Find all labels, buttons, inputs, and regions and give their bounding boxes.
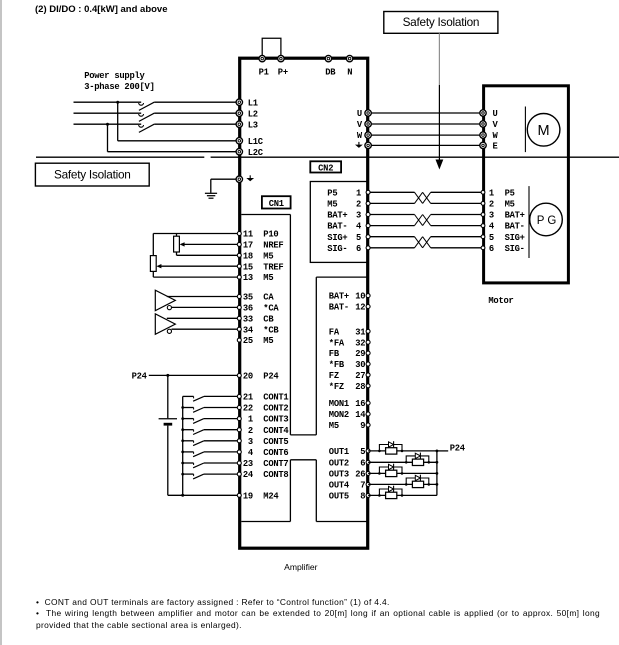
svg-text:CN1: CN1 bbox=[269, 199, 284, 209]
svg-text:11: 11 bbox=[243, 230, 253, 240]
relay load K3 with diode bbox=[378, 464, 403, 477]
svg-text:7: 7 bbox=[360, 481, 365, 491]
svg-text:16: 16 bbox=[355, 399, 365, 409]
svg-text:12: 12 bbox=[355, 303, 365, 313]
terminal U (motor) bbox=[480, 110, 486, 116]
terminal W (motor) bbox=[480, 132, 486, 138]
pin 22 CONT2 bbox=[237, 404, 288, 414]
svg-text:3-phase 200[V]: 3-phase 200[V] bbox=[84, 82, 154, 92]
pin 30 *FB bbox=[329, 360, 370, 370]
svg-text:P1: P1 bbox=[259, 68, 269, 78]
pin 5 SIG+ (encoder) bbox=[481, 233, 525, 243]
relay load K5 with diode bbox=[378, 486, 403, 499]
svg-text:E: E bbox=[493, 142, 498, 152]
relay load K1 with diode bbox=[378, 441, 403, 454]
pin 3 CONT5 bbox=[237, 437, 288, 447]
wire L1C feeder bbox=[118, 102, 237, 141]
switch CONT7 bbox=[181, 462, 237, 468]
pin 2 M5 (encoder) bbox=[481, 200, 515, 210]
pin 11 P10 bbox=[237, 230, 278, 240]
wire OUT4 bbox=[368, 483, 437, 485]
svg-text:(2) DI/DO : 0.4[kW] and above: (2) DI/DO : 0.4[kW] and above bbox=[35, 4, 168, 15]
pin 6 OUT2 bbox=[329, 458, 370, 468]
svg-text:25: 25 bbox=[243, 336, 253, 346]
svg-text:34: 34 bbox=[243, 325, 254, 335]
svg-text:P24: P24 bbox=[132, 371, 148, 381]
svg-text:P G: P G bbox=[537, 215, 557, 227]
wire battery negative to M24 bbox=[168, 426, 237, 496]
svg-text:M5: M5 bbox=[327, 200, 337, 210]
svg-text:8: 8 bbox=[360, 492, 365, 502]
safety isolation boundary line bbox=[36, 156, 619, 158]
junction P24/battery bbox=[166, 374, 169, 377]
terminal U (amplifier) bbox=[365, 110, 371, 116]
svg-text:CONT1: CONT1 bbox=[263, 393, 288, 403]
potentiometer R1 (NREF) bbox=[174, 236, 180, 252]
wire L2 bbox=[74, 112, 238, 114]
pin 10 BAT+ bbox=[329, 292, 370, 302]
svg-text:CONT4: CONT4 bbox=[263, 426, 289, 436]
svg-text:28: 28 bbox=[355, 382, 365, 392]
svg-text:SIG+: SIG+ bbox=[327, 233, 347, 243]
switch CONT6 bbox=[181, 451, 237, 457]
pin 4 CONT6 bbox=[237, 448, 288, 458]
switch S1 (L1 phase) bbox=[139, 102, 155, 110]
svg-text:TREF: TREF bbox=[263, 262, 283, 272]
svg-text:CN2: CN2 bbox=[318, 163, 333, 173]
title text bbox=[35, 4, 168, 15]
relay load K4 with diode bbox=[405, 475, 430, 488]
svg-text:18: 18 bbox=[243, 251, 253, 261]
svg-text:BAT-: BAT- bbox=[329, 303, 349, 313]
svg-text:M5: M5 bbox=[263, 273, 273, 283]
svg-text:FZ: FZ bbox=[329, 371, 339, 381]
pin 2 M5 (CN2) bbox=[327, 200, 370, 210]
pin 1 P5 (CN2) bbox=[327, 188, 370, 198]
wire NREF (pin 17) with wiper arrow bbox=[180, 242, 237, 246]
svg-text:3: 3 bbox=[356, 211, 361, 221]
junction OUT bus row 2 bbox=[436, 461, 439, 464]
svg-text:Safety Isolation: Safety Isolation bbox=[403, 15, 480, 29]
terminal P1 bbox=[259, 55, 265, 61]
svg-text:U: U bbox=[493, 109, 498, 119]
terminal labels P1 P+ DB N bbox=[259, 68, 353, 78]
pin 29 FB bbox=[329, 349, 370, 359]
safety isolation label box (left) bbox=[35, 163, 149, 186]
safety isolation arrow bbox=[436, 33, 444, 169]
pin 14 MON2 bbox=[329, 410, 370, 420]
svg-text:1: 1 bbox=[248, 415, 253, 425]
terminal L1 bbox=[236, 99, 242, 105]
pin 35 CA bbox=[237, 293, 274, 303]
jumper P1 to P+ bbox=[262, 38, 281, 59]
pin 4 BAT- (CN2) bbox=[327, 222, 370, 232]
svg-text:FB: FB bbox=[329, 349, 340, 359]
svg-text:*FB: *FB bbox=[329, 360, 345, 370]
switch S3 (L3 phase) bbox=[139, 124, 155, 132]
switch CONT5 bbox=[181, 439, 237, 445]
svg-text:DB: DB bbox=[325, 68, 336, 78]
svg-text:Amplifier: Amplifier bbox=[284, 562, 318, 572]
svg-text:5: 5 bbox=[360, 447, 365, 457]
wire OUT3 bbox=[368, 472, 437, 474]
svg-text:23: 23 bbox=[243, 459, 253, 469]
svg-text:BAT-: BAT- bbox=[505, 222, 525, 232]
wire U (amplifier to motor) bbox=[368, 112, 483, 114]
svg-text:MON1: MON1 bbox=[329, 399, 349, 409]
junction on L1 bbox=[116, 101, 119, 104]
svg-text:BAT+: BAT+ bbox=[329, 292, 349, 302]
svg-text:SIG-: SIG- bbox=[505, 244, 525, 254]
pin 17 NREF bbox=[237, 241, 283, 251]
junction bus/M24 bbox=[181, 494, 184, 497]
svg-text:CB: CB bbox=[263, 314, 274, 324]
svg-text:OUT3: OUT3 bbox=[329, 470, 349, 480]
wire M5 (pin 18) bbox=[177, 252, 238, 255]
svg-text:N: N bbox=[347, 68, 352, 78]
svg-text:P24: P24 bbox=[263, 372, 279, 382]
wire CA (pin 35) bbox=[167, 296, 237, 298]
node P24 (external supply) bbox=[132, 371, 148, 381]
wire to P24 (right) bbox=[437, 450, 448, 452]
svg-text:OUT4: OUT4 bbox=[329, 481, 350, 491]
encoder PG symbol bbox=[530, 203, 563, 236]
svg-text:CONT3: CONT3 bbox=[263, 415, 288, 425]
pin 23 CONT7 bbox=[237, 459, 288, 469]
pin 12 BAT- bbox=[329, 303, 370, 313]
svg-text:M5: M5 bbox=[263, 336, 273, 346]
svg-text:17: 17 bbox=[243, 241, 253, 251]
svg-text:SIG+: SIG+ bbox=[505, 233, 525, 243]
terminal labels U V W (amplifier) bbox=[357, 109, 363, 141]
wire V (amplifier to motor) bbox=[368, 123, 483, 125]
svg-text:3: 3 bbox=[489, 211, 494, 221]
wire P10 (pin 11) bbox=[153, 234, 237, 237]
svg-text:M5: M5 bbox=[505, 200, 515, 210]
pin 8 OUT5 bbox=[329, 492, 370, 502]
pin 21 CONT1 bbox=[237, 393, 288, 403]
junction OUT bus row 4 bbox=[436, 483, 439, 486]
svg-text:OUT2: OUT2 bbox=[329, 458, 349, 468]
pin 33 CB bbox=[237, 314, 274, 324]
battery BT1 bbox=[159, 419, 177, 424]
svg-text:36: 36 bbox=[243, 304, 253, 314]
svg-text:CONT5: CONT5 bbox=[263, 437, 288, 447]
svg-text:BAT+: BAT+ bbox=[505, 211, 525, 221]
svg-text:20: 20 bbox=[243, 372, 253, 382]
svg-text:3: 3 bbox=[248, 437, 253, 447]
page edge bbox=[0, 0, 2, 645]
svg-text:22: 22 bbox=[243, 404, 253, 414]
pin 4 BAT- (encoder) bbox=[481, 222, 525, 232]
pin 13 M5 bbox=[237, 273, 273, 283]
pin 5 OUT1 bbox=[329, 447, 370, 457]
connector label CN2 bbox=[310, 161, 341, 173]
safety isolation label box (top right) bbox=[384, 12, 498, 34]
wire L1 bbox=[74, 101, 238, 103]
pin 6 SIG- (encoder) bbox=[481, 244, 525, 254]
node P24 (right) bbox=[450, 444, 466, 454]
pin 27 FZ bbox=[329, 371, 370, 381]
switch S2 (L2 phase) bbox=[139, 113, 155, 121]
svg-text:L1: L1 bbox=[248, 98, 258, 108]
svg-text:6: 6 bbox=[356, 244, 361, 254]
svg-text:L1C: L1C bbox=[248, 137, 264, 147]
pin 32 *FA bbox=[329, 338, 370, 348]
switch CONT3 bbox=[181, 417, 237, 423]
svg-text:32: 32 bbox=[355, 338, 365, 348]
svg-text:CA: CA bbox=[263, 293, 274, 303]
CONT common bus bbox=[182, 396, 184, 495]
svg-text:P5: P5 bbox=[327, 188, 337, 198]
svg-text:6: 6 bbox=[360, 458, 365, 468]
terminal E (motor) bbox=[480, 142, 486, 148]
svg-text:2: 2 bbox=[356, 200, 361, 210]
svg-text:10: 10 bbox=[355, 292, 365, 302]
svg-text:U: U bbox=[357, 109, 362, 119]
junction on L3 bbox=[106, 123, 109, 126]
wire E (amplifier to motor) bbox=[368, 144, 483, 146]
svg-text:OUT1: OUT1 bbox=[329, 447, 349, 457]
svg-text:33: 33 bbox=[243, 314, 253, 324]
svg-text:L2C: L2C bbox=[248, 148, 264, 158]
terminal labels L1 L2 L3 L1C L2C bbox=[248, 98, 264, 158]
svg-text:24: 24 bbox=[243, 470, 254, 480]
terminal L2C bbox=[236, 149, 242, 155]
wire L3 bbox=[74, 123, 238, 125]
pin 9 M5 bbox=[329, 421, 370, 431]
svg-text:BAT-: BAT- bbox=[327, 222, 347, 232]
wire *CB (pin 34) bbox=[172, 328, 238, 330]
motor outline bbox=[484, 86, 569, 283]
wire CB (pin 33) bbox=[167, 317, 237, 319]
encoder separator bbox=[528, 186, 530, 258]
twisted pair wires (pins 1/2) bbox=[368, 192, 483, 203]
wire P24 to pin 20 bbox=[149, 374, 237, 376]
svg-text:P10: P10 bbox=[263, 230, 278, 240]
motor caption bbox=[488, 296, 513, 306]
wire battery positive bbox=[167, 375, 169, 418]
wire OUT5 bbox=[368, 494, 437, 496]
connector label CN1 bbox=[262, 196, 291, 209]
line driver U3 (CB) bbox=[155, 314, 175, 334]
terminal W (amplifier) bbox=[365, 132, 371, 138]
svg-text:Power supply: Power supply bbox=[84, 71, 145, 81]
wire M5 (pin 13) bbox=[153, 271, 237, 277]
svg-text:CONT7: CONT7 bbox=[263, 459, 288, 469]
svg-text:6: 6 bbox=[489, 244, 494, 254]
pin 36 *CA bbox=[237, 304, 279, 314]
svg-text:M: M bbox=[538, 123, 550, 139]
svg-text:P24: P24 bbox=[450, 444, 466, 454]
pin 19 M24 bbox=[237, 491, 279, 501]
svg-text:OUT5: OUT5 bbox=[329, 492, 349, 502]
pin 1 CONT3 bbox=[237, 415, 288, 425]
svg-text:CONT8: CONT8 bbox=[263, 470, 288, 480]
notes bbox=[36, 597, 600, 632]
terminal N bbox=[346, 55, 352, 61]
svg-text:21: 21 bbox=[243, 393, 253, 403]
svg-text:FA: FA bbox=[329, 327, 340, 337]
ground symbol bbox=[205, 193, 217, 198]
svg-text:30: 30 bbox=[355, 360, 365, 370]
relay load K2 with diode bbox=[405, 453, 430, 466]
svg-text:26: 26 bbox=[355, 470, 365, 480]
svg-text:9: 9 bbox=[360, 421, 365, 431]
svg-text:29: 29 bbox=[355, 349, 365, 359]
pin 6 SIG- (CN2) bbox=[327, 244, 370, 254]
svg-text:2: 2 bbox=[248, 426, 253, 436]
svg-text:2: 2 bbox=[489, 200, 494, 210]
svg-text:M24: M24 bbox=[263, 491, 279, 501]
pin 31 FA bbox=[329, 327, 370, 337]
svg-text:19: 19 bbox=[243, 491, 253, 501]
junction OUT bus row 1 bbox=[436, 450, 439, 453]
svg-text:NREF: NREF bbox=[263, 241, 283, 251]
amplifier U1 outline bbox=[240, 58, 368, 548]
line driver U2 (CA) bbox=[155, 290, 175, 310]
chassis ground glyph (left) bbox=[246, 175, 254, 181]
pin 3 BAT+ (CN2) bbox=[327, 211, 370, 221]
pin 34 *CB bbox=[237, 325, 279, 335]
junction OUT bus row 3 bbox=[436, 472, 439, 475]
switch CONT8 bbox=[181, 473, 237, 479]
pin 5 SIG+ (CN2) bbox=[327, 233, 370, 243]
wire TREF (pin 15) with wiper arrow bbox=[156, 264, 237, 268]
svg-text:M5: M5 bbox=[329, 421, 339, 431]
svg-text:P5: P5 bbox=[505, 188, 515, 198]
svg-text:L3: L3 bbox=[248, 120, 258, 130]
ground wire bbox=[211, 179, 237, 193]
svg-text:1: 1 bbox=[489, 188, 494, 198]
svg-text:13: 13 bbox=[243, 273, 253, 283]
svg-text:5: 5 bbox=[489, 233, 494, 243]
terminal DB bbox=[325, 55, 331, 61]
wire OUT1 bbox=[368, 450, 437, 452]
pin 16 MON1 bbox=[329, 399, 370, 409]
pin 15 TREF bbox=[237, 262, 283, 272]
connector CN1 outline bbox=[241, 215, 366, 522]
terminal ground (amplifier) bbox=[236, 176, 242, 182]
potentiometer R2 (TREF) bbox=[150, 256, 156, 272]
svg-text:Safety Isolation: Safety Isolation bbox=[54, 168, 131, 182]
svg-text:Motor: Motor bbox=[488, 296, 513, 306]
terminal L2 bbox=[236, 110, 242, 116]
pin 26 OUT3 bbox=[329, 470, 370, 480]
svg-text:1: 1 bbox=[356, 188, 361, 198]
svg-text:P+: P+ bbox=[278, 68, 288, 78]
chassis ground glyph (E terminal) bbox=[355, 142, 363, 148]
wire L2C feeder bbox=[108, 124, 238, 152]
terminal labels U V W E (motor) bbox=[493, 109, 499, 151]
svg-text:L2: L2 bbox=[248, 109, 258, 119]
svg-text:31: 31 bbox=[355, 327, 365, 337]
terminal V (amplifier) bbox=[365, 121, 371, 127]
svg-text:5: 5 bbox=[356, 233, 361, 243]
motor M symbol bbox=[527, 114, 560, 147]
svg-text:27: 27 bbox=[355, 371, 365, 381]
switch CONT4 bbox=[181, 428, 237, 434]
svg-text:*CA: *CA bbox=[263, 304, 279, 314]
pin 28 *FZ bbox=[329, 382, 370, 392]
svg-text:35: 35 bbox=[243, 293, 253, 303]
power supply label bbox=[84, 71, 154, 92]
wire to potentiometer R2 bbox=[152, 234, 154, 256]
connector CN2 encoder section outline bbox=[310, 182, 367, 263]
wire *CA (pin 36) bbox=[172, 306, 238, 308]
svg-text:CONT2: CONT2 bbox=[263, 404, 288, 414]
amplifier caption bbox=[284, 562, 318, 572]
svg-text:MON2: MON2 bbox=[329, 410, 349, 420]
svg-text:14: 14 bbox=[355, 410, 366, 420]
svg-text:*CB: *CB bbox=[263, 325, 279, 335]
terminal E (amplifier) bbox=[365, 142, 371, 148]
switch CONT1 bbox=[183, 396, 237, 401]
terminal P+ bbox=[278, 55, 284, 61]
switch CONT2 bbox=[181, 406, 237, 412]
pin 7 OUT4 bbox=[329, 481, 370, 491]
twisted pair wires (pins 5/6) bbox=[368, 237, 483, 248]
svg-text:SIG-: SIG- bbox=[327, 244, 347, 254]
svg-text:*FA: *FA bbox=[329, 338, 345, 348]
terminal L3 bbox=[236, 121, 242, 127]
pin 24 CONT8 bbox=[237, 470, 288, 480]
terminal V (motor) bbox=[480, 121, 486, 127]
pin 20 P24 bbox=[237, 372, 279, 382]
wire W (amplifier to motor) bbox=[368, 134, 483, 136]
motor winding separator bbox=[524, 107, 526, 153]
svg-text:*FZ: *FZ bbox=[329, 382, 344, 392]
svg-text:M5: M5 bbox=[263, 251, 273, 261]
pin 3 BAT+ (encoder) bbox=[481, 211, 525, 221]
pin 25 M5 bbox=[237, 336, 273, 346]
svg-text:CONT6: CONT6 bbox=[263, 448, 288, 458]
svg-text:BAT+: BAT+ bbox=[327, 211, 347, 221]
OUT common bus to P24 bbox=[436, 451, 438, 496]
pin 1 P5 (encoder) bbox=[481, 188, 515, 198]
pin 18 M5 bbox=[237, 251, 273, 261]
wire OUT2 bbox=[368, 461, 437, 463]
terminal L1C bbox=[236, 138, 242, 144]
pin 2 CONT4 bbox=[237, 426, 289, 436]
svg-text:15: 15 bbox=[243, 262, 253, 272]
twisted pair wires (pins 3/4) bbox=[368, 215, 483, 226]
